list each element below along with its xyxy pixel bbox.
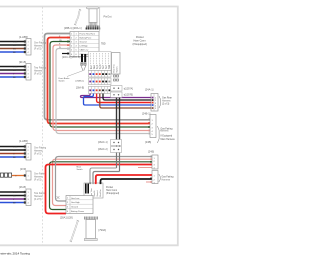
svg-text:Switch: Switch — [116, 67, 119, 73]
svg-text:[24B]: [24B] — [145, 140, 151, 144]
svg-text:◂[1297A]: ◂[1297A] — [124, 88, 134, 91]
svg-text:Switch: Switch — [77, 168, 84, 171]
svg-text:[28A-B]: [28A-B] — [76, 87, 84, 90]
svg-text:Rear Fas: Rear Fas — [114, 64, 116, 72]
svg-text:[24B]: [24B] — [148, 150, 154, 154]
svg-text:[2V9]: [2V9] — [20, 167, 26, 171]
svg-text:Gnd: Gnd — [106, 65, 108, 69]
svg-text:Sig L: Sig L — [97, 65, 99, 69]
svg-text:Battery Power: Battery Power — [71, 210, 84, 213]
svg-text:Batt: Batt — [90, 65, 93, 69]
svg-text:Harness: Harness — [162, 179, 171, 182]
svg-text:Gas Rear: Gas Rear — [162, 97, 172, 100]
svg-text:(F of 5): (F of 5) — [34, 74, 42, 76]
svg-text:Pocket: Pocket — [106, 186, 113, 189]
svg-text:TBD: TBD — [101, 44, 106, 46]
svg-text:[28B-1] [28A-1]: [28B-1] [28A-1] — [64, 26, 82, 30]
svg-text:Left/Sign: Left/Sign — [80, 45, 89, 48]
svg-text:[790A]: [790A] — [99, 228, 107, 232]
svg-text:(F of 5): (F of 5) — [34, 154, 42, 156]
svg-text:Gas Low: Gas Low — [71, 198, 80, 200]
svg-text:1 BK: 1 BK — [13, 147, 18, 149]
svg-text:[2-HB5]: [2-HB5] — [19, 139, 28, 143]
svg-text:Ground: Ground — [71, 206, 79, 209]
svg-text:Switch: Switch — [59, 80, 66, 83]
svg-text:Gas Fairing: Gas Fairing — [162, 176, 175, 179]
svg-text:[28A1] [28]: [28A1] [28] — [60, 216, 73, 220]
svg-text:[9F-B]: [9F-B] — [19, 60, 26, 64]
svg-text:◂[1297B]: ◂[1297B] — [124, 94, 134, 97]
svg-text:CAN Low: CAN Low — [80, 49, 89, 52]
svg-text:[28AC-1]: [28AC-1] — [98, 141, 108, 144]
svg-text:(F of 5): (F of 5) — [34, 49, 42, 51]
svg-text:Harness: Harness — [34, 195, 43, 198]
svg-text:[24A-1]: [24A-1] — [145, 88, 154, 92]
svg-text:1 BK: 1 BK — [13, 42, 18, 44]
svg-text:[20O-1] [20O-B]: [20O-1] [20O-B] — [62, 55, 81, 59]
svg-text:Gas High: Gas High — [71, 202, 81, 204]
svg-text:[28AB-1]: [28AB-1] — [76, 80, 85, 83]
svg-text:Horn: Horn — [93, 65, 96, 69]
svg-text:CAN: CAN — [108, 64, 111, 69]
svg-text:(If Equipped): (If Equipped) — [106, 193, 119, 195]
svg-text:Harness: Harness — [34, 70, 43, 73]
svg-text:[26-B]: [26-B] — [19, 185, 26, 189]
svg-text:Frame Rea Harn: Frame Rea Harn — [80, 33, 96, 36]
svg-text:PinOut: PinOut — [104, 15, 112, 19]
svg-text:Main Harness: Main Harness — [161, 138, 176, 141]
svg-text:Harness: Harness — [162, 100, 171, 103]
svg-text:Ground: Ground — [96, 190, 99, 196]
svg-text:(If Equipped): (If Equipped) — [133, 43, 147, 46]
svg-text:[28AC-2]: [28AC-2] — [98, 148, 108, 151]
svg-text:1 BK: 1 BK — [13, 192, 18, 194]
svg-text:(F of 5): (F of 5) — [34, 199, 42, 201]
svg-text:Harness: Harness — [160, 130, 169, 133]
svg-text:Ground: Ground — [80, 41, 88, 44]
svg-text:wire-als; 2014 Touring: wire-als; 2014 Touring — [1, 252, 31, 256]
svg-text:Harn Conn: Harn Conn — [106, 189, 118, 192]
svg-text:One Fairing: One Fairing — [34, 147, 47, 150]
svg-text:(F of 5): (F of 5) — [34, 180, 42, 182]
svg-text:Gnd: Gnd — [103, 65, 105, 69]
svg-text:Sig R: Sig R — [100, 64, 102, 69]
svg-text:(2 of 3): (2 of 3) — [162, 104, 170, 106]
svg-text:Harness: Harness — [34, 150, 43, 153]
svg-text:Front Brake: Front Brake — [59, 77, 71, 80]
svg-text:Gas Hi: Gas Hi — [94, 190, 96, 196]
svg-text:Battery/Fuse: Battery/Fuse — [80, 37, 93, 40]
svg-text:Batt Pwr: Batt Pwr — [99, 189, 102, 197]
svg-text:1 BK: 1 BK — [13, 67, 18, 69]
svg-text:Harness: Harness — [34, 176, 43, 179]
svg-text:Harness: Harness — [34, 45, 43, 48]
svg-text:If Equipped: If Equipped — [161, 136, 173, 138]
svg-text:[24B-1]: [24B-1] — [142, 112, 151, 116]
